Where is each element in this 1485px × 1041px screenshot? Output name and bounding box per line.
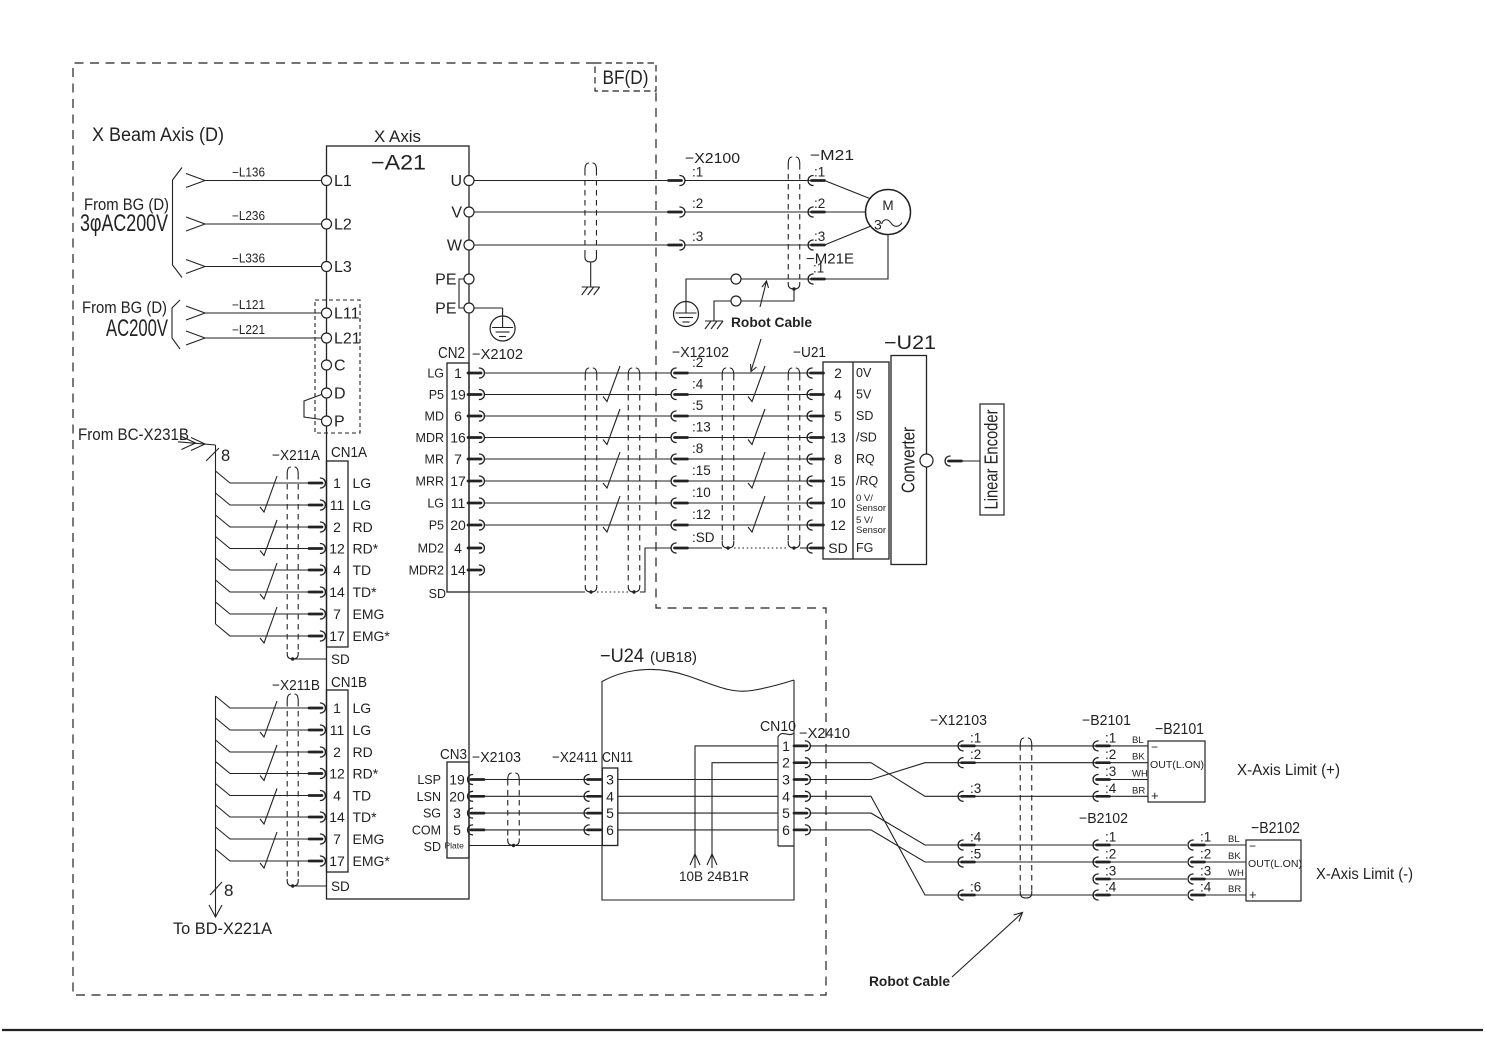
CN10 contact 5 bbox=[794, 812, 807, 815]
svg-text:4: 4 bbox=[454, 540, 462, 556]
CN11 contact 4 bbox=[584, 791, 590, 801]
earth symbol at PE bbox=[474, 307, 503, 309]
wire B2102 3 to sensor box bbox=[1205, 878, 1247, 880]
svg-text:−: − bbox=[1151, 740, 1158, 754]
wire B2102 link 3 bbox=[1110, 878, 1188, 880]
wire B2101 2 to sensor box bbox=[1110, 762, 1149, 764]
svg-text:EMG*: EMG* bbox=[353, 853, 391, 869]
svg-text:17: 17 bbox=[329, 853, 345, 869]
svg-text:SD: SD bbox=[331, 652, 350, 667]
svg-text:14: 14 bbox=[329, 584, 345, 600]
BF(D) label box bbox=[595, 63, 656, 91]
svg-text::3: :3 bbox=[1105, 864, 1116, 879]
svg-text:2: 2 bbox=[834, 365, 842, 381]
svg-text:−L236: −L236 bbox=[232, 209, 265, 223]
svg-text:MDR: MDR bbox=[416, 431, 444, 445]
svg-text:13: 13 bbox=[830, 430, 846, 446]
svg-text:Robot Cable: Robot Cable bbox=[731, 315, 812, 330]
connector CN1A box bbox=[327, 461, 349, 647]
svg-text:5: 5 bbox=[782, 805, 790, 821]
CN1B branch wire 7 bbox=[216, 827, 311, 839]
CN1A contact 2 bbox=[309, 526, 322, 529]
svg-text::10: :10 bbox=[692, 485, 711, 500]
U21 pin 5 contact bbox=[807, 411, 813, 421]
svg-text:RD: RD bbox=[353, 519, 373, 535]
svg-text:11: 11 bbox=[330, 722, 345, 738]
wire B2101 1 to sensor box bbox=[1110, 745, 1149, 747]
wire M21-2 to motor bbox=[825, 211, 867, 213]
svg-text:COM: COM bbox=[412, 823, 441, 837]
svg-text:1: 1 bbox=[454, 365, 462, 381]
earth symbol motor cable bbox=[674, 302, 699, 327]
svg-text:Converter: Converter bbox=[899, 427, 919, 493]
svg-text:8: 8 bbox=[221, 447, 230, 465]
terminal L11 circle bbox=[322, 308, 332, 318]
twisted pair mark seg1 3 bbox=[603, 452, 620, 488]
svg-text:RD*: RD* bbox=[353, 541, 379, 557]
svg-text:TD*: TD* bbox=[353, 809, 378, 825]
svg-text:X Axis: X Axis bbox=[374, 128, 421, 146]
wire node to chassis bbox=[714, 301, 731, 321]
connector X12103 :3 bbox=[958, 791, 964, 801]
svg-text:BK: BK bbox=[1132, 752, 1145, 763]
wire X2410-1 to X12103-1 bbox=[810, 745, 962, 747]
twisted pair mark CN1A 4 bbox=[260, 607, 277, 643]
wire X2100 to M21 pin 3 bbox=[685, 244, 811, 246]
connector converter-encoder bbox=[945, 456, 951, 466]
svg-text:U: U bbox=[450, 173, 462, 190]
terminal PE circle bbox=[464, 303, 474, 313]
connector X2100 pin 2 bbox=[669, 211, 682, 214]
svg-text:4: 4 bbox=[333, 562, 341, 578]
svg-text::3: :3 bbox=[970, 781, 981, 796]
connector CN1B box bbox=[327, 690, 349, 872]
svg-text:EMG: EMG bbox=[353, 831, 385, 847]
svg-text:20: 20 bbox=[449, 788, 465, 804]
wire X12103-2 to B2101-2 bbox=[975, 762, 1097, 764]
svg-text:17: 17 bbox=[329, 628, 345, 644]
svg-text::8: :8 bbox=[692, 441, 703, 456]
CN10 contact 4 bbox=[794, 795, 807, 798]
wire −L236 bbox=[205, 223, 322, 225]
svg-text:LG: LG bbox=[353, 497, 372, 513]
U21 pin 2 contact bbox=[807, 368, 813, 378]
svg-text:8: 8 bbox=[834, 451, 842, 467]
svg-text:/SD: /SD bbox=[856, 431, 877, 445]
connector X12103 :4 bbox=[958, 840, 964, 850]
wire X12102 :8 to U21 bbox=[688, 458, 811, 460]
svg-text:12: 12 bbox=[830, 517, 846, 533]
svg-text:L1: L1 bbox=[334, 173, 352, 190]
svg-text::1: :1 bbox=[970, 730, 981, 745]
unit U24 box outline bbox=[602, 680, 794, 900]
wire B2102 link 2 bbox=[1110, 861, 1188, 863]
wire X12102 :15 to U21 bbox=[688, 480, 811, 482]
CN1B contact 14 bbox=[309, 816, 322, 819]
svg-text:CN1A: CN1A bbox=[331, 445, 367, 461]
CN10 contact 3 bbox=[794, 778, 807, 781]
CN11 contact 5 bbox=[584, 808, 590, 818]
U21 pin 13 contact bbox=[807, 433, 813, 443]
wire B2102 link 4 bbox=[1110, 894, 1188, 896]
twisted pair mark CN1B 3 bbox=[260, 789, 277, 825]
terminal PE circle bbox=[464, 274, 474, 284]
svg-text:P5: P5 bbox=[429, 388, 444, 402]
connector X12102 :5 bbox=[671, 411, 677, 421]
svg-text:LSP: LSP bbox=[417, 773, 441, 787]
wire X2410-5 to X12103-4 bbox=[810, 813, 962, 845]
svg-text:7: 7 bbox=[333, 831, 341, 847]
svg-text:5V: 5V bbox=[856, 388, 872, 402]
svg-text::1: :1 bbox=[1105, 730, 1116, 745]
svg-text:OUT(L.ON): OUT(L.ON) bbox=[1248, 858, 1302, 870]
svg-text:V: V bbox=[451, 205, 462, 222]
node circle on shield wire bbox=[731, 296, 741, 306]
sensor B2101 box bbox=[1148, 741, 1205, 802]
svg-text:X Beam Axis (D): X Beam Axis (D) bbox=[92, 125, 224, 146]
svg-text:SD: SD bbox=[429, 587, 446, 601]
connector B2101 :4 bbox=[1093, 791, 1099, 801]
CN1B contact 1 bbox=[309, 707, 322, 710]
bracket 1-phase input bbox=[172, 300, 180, 349]
CN3 pin 3 contact bbox=[468, 808, 474, 818]
connector X12102 :4 bbox=[671, 390, 677, 400]
svg-text:−X2103: −X2103 bbox=[472, 750, 521, 766]
CN1A SD wire bbox=[293, 658, 327, 660]
shield capsule X211A bbox=[286, 474, 288, 652]
CN1A contact 7 bbox=[309, 613, 322, 616]
svg-text:LG: LG bbox=[353, 700, 372, 716]
connector X12102 :10 bbox=[671, 498, 677, 508]
connector X12102 :15 bbox=[671, 476, 677, 486]
svg-text:TD*: TD* bbox=[353, 584, 378, 600]
svg-text:−B2101: −B2101 bbox=[1155, 721, 1204, 738]
wire node to earth bbox=[686, 279, 731, 302]
terminal L1 circle bbox=[322, 176, 332, 186]
svg-text:+: + bbox=[1249, 887, 1257, 902]
bracket 3-phase input bbox=[173, 168, 183, 278]
bus CN1B wire-count slash bbox=[210, 882, 222, 895]
shield capsule D bbox=[787, 375, 789, 541]
PE jumper bracket bbox=[459, 279, 464, 308]
svg-text:−: − bbox=[1249, 839, 1256, 853]
terminal L21 circle bbox=[322, 333, 332, 343]
svg-text:To BD-X221A: To BD-X221A bbox=[173, 920, 272, 938]
svg-text:LSN: LSN bbox=[417, 790, 441, 804]
svg-text:12: 12 bbox=[329, 766, 345, 782]
connector B2102 :1 bbox=[1188, 840, 1194, 850]
svg-text:11: 11 bbox=[330, 497, 345, 513]
svg-text:2: 2 bbox=[333, 744, 341, 760]
svg-text:EMG: EMG bbox=[353, 606, 385, 622]
CN2 pin 14 contact bbox=[468, 569, 481, 572]
svg-text:P: P bbox=[334, 414, 345, 431]
wire motor to M21E bbox=[825, 235, 889, 280]
wire shield to U21 SD bbox=[800, 547, 811, 549]
wire CN3 5 to CN11 bbox=[484, 829, 587, 831]
CN2 pin 20 contact bbox=[468, 524, 481, 527]
svg-text::4: :4 bbox=[1105, 880, 1117, 895]
svg-text:4: 4 bbox=[606, 788, 614, 804]
svg-text:−M21: −M21 bbox=[810, 148, 854, 164]
wire −L121 bbox=[205, 312, 322, 314]
svg-text::3: :3 bbox=[814, 229, 825, 244]
CN11 contact 6 bbox=[584, 825, 590, 835]
svg-text::15: :15 bbox=[692, 463, 711, 478]
CN2 pin 16 contact bbox=[468, 436, 481, 439]
twisted pair mark CN1A 3 bbox=[260, 563, 277, 599]
CN1B branch wire 14 bbox=[216, 805, 311, 817]
svg-text:12: 12 bbox=[329, 541, 345, 557]
svg-text:−L221: −L221 bbox=[232, 323, 265, 337]
wire X2100 to M21 pin 1 bbox=[685, 180, 811, 182]
arrowhead 24B1R bbox=[707, 854, 717, 865]
CN1B contact 2 bbox=[309, 751, 322, 754]
svg-text:C: C bbox=[334, 358, 346, 375]
motor tilde bbox=[882, 220, 903, 227]
wire CN2 row 6 to X12102 bbox=[485, 415, 672, 417]
CN1A branch wire 4 bbox=[216, 558, 311, 570]
connector CN2 box bbox=[447, 363, 469, 592]
connector X12102 :12 bbox=[671, 520, 677, 530]
svg-text::13: :13 bbox=[692, 420, 711, 435]
terminal L3 circle bbox=[322, 262, 332, 272]
CN1A branch wire 1 bbox=[216, 471, 311, 483]
arrow chevron −L136 bbox=[186, 174, 205, 188]
CN1A contact 4 bbox=[309, 569, 322, 572]
wire 2 A21 to X2100 bbox=[474, 211, 669, 213]
CN10 contact 1 bbox=[794, 745, 807, 748]
wire X2100 to M21 pin 2 bbox=[685, 211, 811, 213]
svg-text:5: 5 bbox=[834, 408, 842, 424]
shield drain left bbox=[590, 262, 592, 287]
shield motor cable left bbox=[584, 170, 586, 255]
svg-text:BL: BL bbox=[1132, 735, 1144, 746]
svg-text:L3: L3 bbox=[334, 259, 352, 276]
svg-text:BL: BL bbox=[1228, 834, 1240, 845]
svg-text::2: :2 bbox=[1200, 847, 1211, 862]
CN3 plate wire bbox=[469, 845, 618, 847]
svg-text:15: 15 bbox=[830, 473, 846, 489]
svg-text::5: :5 bbox=[970, 847, 981, 862]
svg-text:+: + bbox=[1151, 788, 1159, 803]
svg-text:BF(D): BF(D) bbox=[603, 68, 649, 89]
CN1B contact 4 bbox=[309, 794, 322, 797]
svg-text:X-Axis Limit (+): X-Axis Limit (+) bbox=[1237, 762, 1340, 779]
connector B2102 :2 bbox=[1188, 857, 1194, 867]
svg-text:4: 4 bbox=[333, 788, 341, 804]
rail 24B1R bbox=[712, 763, 778, 868]
U21 pin 4 contact bbox=[807, 390, 813, 400]
arrow chevron −L336 bbox=[186, 260, 205, 274]
wire CN11 5 to CN10 bbox=[618, 812, 778, 814]
svg-text:−X2100: −X2100 bbox=[685, 151, 740, 167]
svg-text:11: 11 bbox=[451, 495, 466, 511]
svg-text:RD: RD bbox=[353, 744, 373, 760]
twisted pair mark seg1 2 bbox=[603, 409, 620, 445]
svg-text:−X211A: −X211A bbox=[272, 448, 320, 464]
twisted pair mark seg2 3 bbox=[748, 452, 765, 488]
svg-text::2: :2 bbox=[814, 196, 825, 211]
svg-text:1: 1 bbox=[782, 738, 790, 754]
svg-text:From BC-X231B: From BC-X231B bbox=[78, 426, 189, 444]
CN3 pin 19 contact bbox=[468, 775, 474, 785]
twisted pair mark seg1 1 bbox=[603, 366, 620, 402]
svg-text:MD2: MD2 bbox=[418, 542, 444, 556]
wire X12102 SD stub bbox=[688, 547, 723, 549]
CN1A contact 17 bbox=[309, 635, 322, 638]
svg-text:X-Axis Limit (-): X-Axis Limit (-) bbox=[1316, 866, 1413, 883]
CN1A contact 12 bbox=[309, 547, 322, 550]
svg-text::2: :2 bbox=[692, 196, 703, 211]
node circle on PE wire bbox=[731, 274, 741, 284]
wire M21-1 to motor bbox=[825, 181, 872, 200]
chassis ground robot cable bbox=[705, 320, 723, 322]
svg-text:Sensor: Sensor bbox=[856, 503, 886, 514]
svg-text:/RQ: /RQ bbox=[856, 474, 879, 488]
U21 pin SD contact bbox=[807, 543, 813, 553]
arrow chevron −L121 bbox=[186, 306, 205, 320]
svg-text:−L336: −L336 bbox=[232, 252, 265, 266]
CN10 contact 6 bbox=[794, 829, 807, 832]
svg-text:CN10: CN10 bbox=[760, 719, 796, 735]
svg-text:P5: P5 bbox=[429, 519, 444, 533]
U21 pin 15 contact bbox=[807, 476, 813, 486]
wire B2102 link 1 bbox=[1110, 844, 1188, 846]
wire 3 A21 to X2100 bbox=[474, 244, 669, 246]
svg-text:−U21: −U21 bbox=[793, 345, 826, 361]
rail 10B bbox=[695, 746, 778, 868]
wire CN2 row 20 to X12102 bbox=[485, 524, 672, 526]
svg-text:1: 1 bbox=[333, 700, 341, 716]
shield drain right bbox=[741, 289, 794, 301]
svg-text:−B2102: −B2102 bbox=[1251, 820, 1300, 837]
connector M21E pin 1 bbox=[808, 274, 814, 284]
CN1A contact 11 bbox=[309, 504, 322, 507]
wire CN2 row 17 to X12102 bbox=[485, 480, 672, 482]
arrowhead 10B bbox=[690, 854, 700, 865]
CN1B contact 12 bbox=[309, 772, 322, 775]
svg-text:W: W bbox=[447, 238, 463, 255]
svg-text:16: 16 bbox=[450, 430, 466, 446]
dotted shield link CN2 bbox=[597, 591, 628, 593]
connector X12102 :2 bbox=[671, 368, 677, 378]
svg-text:MRR: MRR bbox=[416, 475, 444, 489]
wire CN2 row 1 to X12102 bbox=[485, 372, 672, 374]
CN1A branch wire 11 bbox=[216, 493, 311, 505]
wire M21E to ground node bbox=[741, 278, 811, 280]
svg-text:LG: LG bbox=[427, 367, 444, 381]
svg-text:CN1B: CN1B bbox=[331, 675, 367, 691]
svg-text:6: 6 bbox=[454, 408, 462, 424]
connector X2100 pin 3 bbox=[669, 244, 682, 247]
connector B2101 :3 bbox=[1093, 775, 1099, 785]
svg-text:24B1R: 24B1R bbox=[707, 868, 749, 884]
svg-text::SD: :SD bbox=[692, 530, 715, 545]
converter U21 box bbox=[891, 356, 927, 565]
svg-text:BR: BR bbox=[1228, 884, 1241, 895]
CN1B branch wire 1 bbox=[216, 696, 311, 708]
CN1A branch wire 14 bbox=[216, 580, 311, 592]
chassis ground left shield bbox=[582, 286, 600, 288]
CN1B branch wire 17 bbox=[216, 849, 311, 861]
bus CN1A wire-count slash bbox=[206, 448, 219, 461]
CN2 pin 4 contact bbox=[468, 547, 481, 550]
CN1B branch wire 12 bbox=[216, 762, 311, 774]
linear encoder box bbox=[980, 404, 1004, 515]
dashed box around L11..P terminals bbox=[315, 300, 360, 433]
wire B2102 1 to sensor box bbox=[1205, 844, 1247, 846]
svg-text:0V: 0V bbox=[856, 366, 872, 380]
twisted pair mark seg2 2 bbox=[748, 409, 765, 445]
CN1A contact 1 bbox=[309, 482, 322, 485]
arrow From BC-X231B bbox=[178, 442, 216, 445]
connector X12103 :6 bbox=[958, 890, 964, 900]
wire X12103-3 to B2101-4 bbox=[975, 795, 1097, 797]
arrow to motor shield bbox=[760, 281, 767, 307]
twisted pair mark seg2 1 bbox=[748, 366, 765, 402]
svg-text:3: 3 bbox=[782, 772, 790, 788]
svg-text:LG: LG bbox=[427, 497, 444, 511]
CN1B branch wire 4 bbox=[216, 784, 311, 796]
shield capsule A bbox=[584, 375, 586, 585]
wire B2101 3 to sensor box bbox=[1110, 779, 1149, 781]
svg-text:PE: PE bbox=[435, 301, 456, 318]
wire X12103-5 to B2102-2 bbox=[975, 861, 1097, 863]
connector B2101 :2 bbox=[1093, 758, 1099, 768]
connector CN11 box bbox=[602, 768, 618, 846]
svg-text:SD: SD bbox=[331, 879, 350, 894]
U21 pin 12 contact bbox=[807, 520, 813, 530]
shield capsule X211B bbox=[286, 701, 288, 879]
wire X12102 :4 to U21 bbox=[688, 394, 811, 396]
connector X12102 :13 bbox=[671, 433, 677, 443]
svg-text:L11: L11 bbox=[334, 306, 360, 323]
U21 pin 8 contact bbox=[807, 454, 813, 464]
connector X12103 :5 bbox=[958, 857, 964, 867]
arrow chevron −L236 bbox=[186, 217, 205, 231]
svg-text:7: 7 bbox=[454, 451, 462, 467]
svg-text:Linear Encoder: Linear Encoder bbox=[981, 410, 1002, 510]
enclosure boundary BF(D) dashed border bbox=[73, 63, 826, 995]
wire CN11 3 to CN10 bbox=[618, 779, 778, 781]
wire CN11 6 to CN10 bbox=[618, 829, 778, 831]
svg-text:10: 10 bbox=[830, 495, 846, 511]
svg-text:D: D bbox=[334, 386, 346, 403]
connector B2102 inline :1 bbox=[1093, 840, 1099, 850]
svg-text:17: 17 bbox=[450, 473, 466, 489]
svg-text:4: 4 bbox=[782, 788, 790, 804]
terminal W circle bbox=[464, 240, 474, 250]
svg-text:6: 6 bbox=[782, 822, 790, 838]
svg-text:6: 6 bbox=[606, 822, 614, 838]
shield capsule C bbox=[721, 375, 723, 541]
arrow To BD-X221A bbox=[209, 905, 222, 917]
bottom rule line bbox=[2, 1029, 1483, 1031]
wire X12102 :12 to U21 bbox=[688, 524, 811, 526]
svg-text::3: :3 bbox=[692, 229, 703, 244]
svg-text:BK: BK bbox=[1228, 851, 1241, 862]
svg-text::4: :4 bbox=[1200, 880, 1212, 895]
wire B2101 4 to sensor box bbox=[1110, 795, 1149, 797]
svg-text::1: :1 bbox=[1105, 830, 1116, 845]
shield motor cable right bbox=[787, 164, 789, 282]
svg-text:Robot Cable: Robot Cable bbox=[869, 974, 950, 989]
wire CN3 20 to CN11 bbox=[484, 795, 587, 797]
svg-text:3: 3 bbox=[874, 217, 882, 233]
terminal L2 circle bbox=[322, 219, 332, 229]
svg-text::2: :2 bbox=[970, 747, 981, 762]
